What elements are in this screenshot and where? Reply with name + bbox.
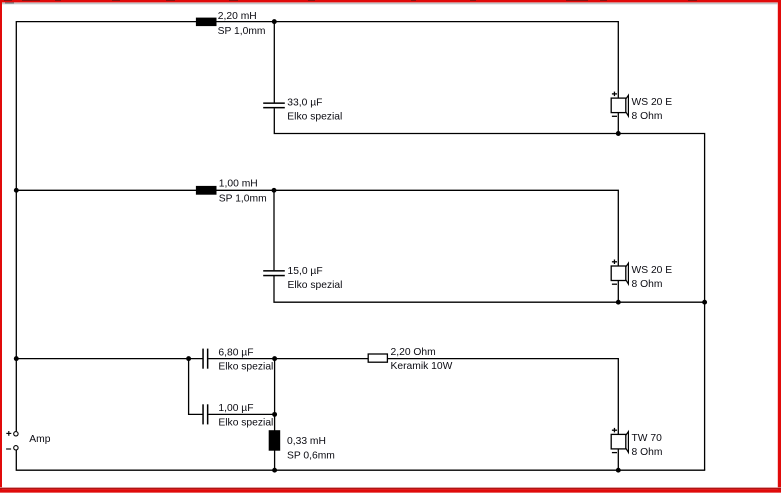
svg-text:Elko spezial: Elko spezial	[287, 111, 342, 122]
svg-text:SP 1,0mm: SP 1,0mm	[219, 194, 267, 205]
svg-text:WS 20 E: WS 20 E	[632, 97, 673, 108]
svg-text:8 Ohm: 8 Ohm	[632, 279, 663, 290]
svg-text:Amp: Amp	[29, 434, 50, 445]
svg-text:0,33 mH: 0,33 mH	[287, 436, 326, 447]
svg-text:2,20 Ohm: 2,20 Ohm	[391, 347, 436, 358]
svg-text:Elko spezial: Elko spezial	[288, 280, 343, 291]
svg-text:TW 70: TW 70	[632, 433, 663, 444]
svg-text:1,00 µF: 1,00 µF	[218, 403, 253, 414]
svg-text:Elko spezial: Elko spezial	[218, 362, 273, 373]
svg-text:8 Ohm: 8 Ohm	[632, 111, 663, 122]
svg-text:WS 20 E: WS 20 E	[632, 265, 673, 276]
svg-text:15,0 µF: 15,0 µF	[288, 266, 323, 277]
svg-text:SP 1,0mm: SP 1,0mm	[218, 26, 266, 37]
svg-text:33,0 µF: 33,0 µF	[287, 97, 322, 108]
svg-text:SP 0,6mm: SP 0,6mm	[287, 450, 335, 461]
svg-text:8 Ohm: 8 Ohm	[632, 447, 663, 458]
svg-text:Elko spezial: Elko spezial	[218, 417, 273, 428]
svg-text:2,20 mH: 2,20 mH	[218, 11, 257, 22]
svg-text:6,80 µF: 6,80 µF	[218, 348, 253, 359]
svg-text:Keramik 10W: Keramik 10W	[391, 361, 453, 372]
svg-text:1,00 mH: 1,00 mH	[219, 178, 258, 189]
